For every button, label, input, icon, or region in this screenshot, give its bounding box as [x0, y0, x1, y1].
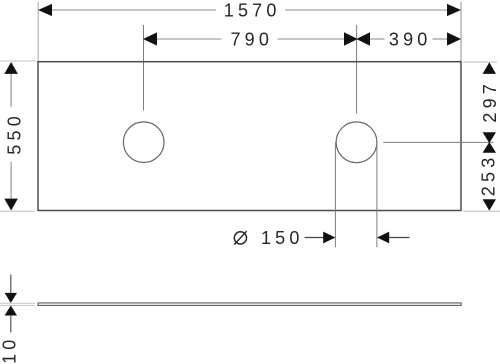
- dimension 10 arrow lower: [5, 306, 17, 316]
- svg-text:790: 790: [230, 30, 273, 50]
- dimension 790 line: [155, 38, 222, 40]
- dimension 1570 arrow left: [38, 4, 52, 16]
- extension line right edge (x=461): [460, 2, 462, 61]
- leader hole center right: [383, 141, 493, 143]
- dimension D150 line left: [305, 237, 324, 239]
- dimension 390 arrow right: [447, 32, 461, 45]
- svg-text:297: 297: [480, 80, 500, 123]
- slab side view bottom line: [38, 304, 462, 306]
- dimension 790 arrow left: [143, 32, 157, 45]
- extension 253 bottom right: [463, 210, 500, 212]
- dimension 253 arrow bottom: [483, 199, 496, 211]
- extension 297 top right: [463, 61, 497, 63]
- svg-text:10: 10: [0, 335, 19, 363]
- dimension 790 arrow right (bowtie left): [344, 32, 358, 45]
- dimension 1570 line: [50, 9, 216, 11]
- dimension D150 line right: [389, 237, 410, 239]
- dimension 550 arrow top: [4, 62, 18, 74]
- centerline hole left: [143, 25, 145, 111]
- dimension D150 arrow left: [323, 232, 335, 244]
- slab side view left cap: [37, 303, 39, 306]
- dimension 297 arrow top: [483, 62, 496, 74]
- dimension D150 arrow right: [377, 232, 389, 244]
- svg-text:550: 550: [5, 112, 25, 155]
- dimension 390 arrow left (bowtie right): [356, 32, 370, 45]
- dimension 253 arrow top (bowtie lower): [483, 142, 496, 153]
- slab side view top line: [38, 302, 462, 304]
- dimension 390 line: [370, 38, 385, 40]
- dimension 550 arrow bottom: [4, 199, 18, 211]
- dimension 10 line lower: [10, 315, 12, 332]
- centerline hole right: [356, 25, 358, 114]
- dimension 297 arrow bottom (bowtie upper): [483, 132, 496, 143]
- dimension 10 arrow upper: [5, 293, 17, 303]
- extension slab bottom: [0, 304, 35, 306]
- tangent extension hole right left side: [334, 143, 336, 248]
- dimension 550 line: [10, 72, 12, 107]
- tangent extension hole right right side: [376, 143, 378, 248]
- extension 550 bottom: [0, 210, 35, 212]
- extension slab top: [0, 302, 35, 304]
- hole right: [336, 122, 377, 163]
- countertop outline (top view): [38, 62, 461, 211]
- svg-text:1570: 1570: [224, 1, 281, 21]
- svg-text:253: 253: [479, 154, 499, 197]
- dimension 10 line upper: [10, 275, 12, 295]
- hole left: [123, 122, 164, 163]
- svg-text:150: 150: [261, 228, 304, 248]
- dimension 1570 arrow right: [447, 4, 461, 16]
- dimension D150 label diameter symbol: [234, 232, 246, 244]
- slab side view right cap: [460, 303, 462, 306]
- svg-text:390: 390: [389, 30, 432, 50]
- extension line left edge (x=38): [37, 2, 39, 61]
- extension 550 top: [0, 60, 37, 62]
